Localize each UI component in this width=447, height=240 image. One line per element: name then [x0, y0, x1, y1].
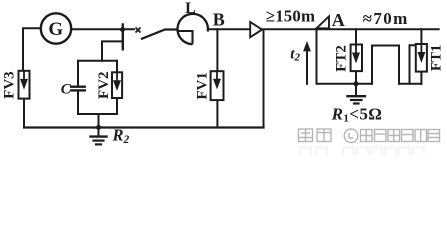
svg-text:G: G: [48, 19, 63, 40]
svg-text:FT1: FT1: [429, 44, 445, 71]
svg-text:FV1: FV1: [194, 72, 210, 100]
svg-text:FV2: FV2: [96, 71, 112, 99]
svg-text:B: B: [213, 10, 225, 30]
svg-text:≥150m: ≥150m: [266, 6, 315, 25]
svg-text:R1<5Ω: R1<5Ω: [331, 105, 383, 125]
svg-text:FT2: FT2: [333, 45, 349, 72]
svg-text:≈70m: ≈70m: [363, 9, 409, 28]
svg-text:L: L: [185, 0, 196, 17]
svg-text:t2: t2: [290, 46, 300, 63]
svg-text:FV3: FV3: [1, 71, 17, 99]
svg-text:A: A: [332, 10, 345, 30]
svg-text:C: C: [61, 82, 72, 98]
